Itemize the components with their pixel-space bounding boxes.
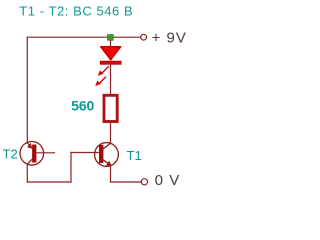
LED D1 cathode bar	[100, 61, 121, 64]
wire T1 emitter to bottom rail	[110, 166, 112, 183]
wire T1 base corner vertical	[70, 152, 72, 183]
LED light arrow 1	[98, 66, 109, 76]
svg-text:T2: T2	[3, 147, 18, 162]
wire bottom rail to 0V	[110, 181, 141, 183]
svg-text:T1: T1	[127, 148, 142, 163]
wire T1 base	[70, 152, 99, 154]
terminal 0V circle	[141, 179, 147, 185]
transistor T2 circle	[20, 142, 44, 166]
svg-text:0 V: 0 V	[155, 172, 181, 189]
svg-text:560: 560	[71, 97, 94, 113]
transistor T2 bottom lead	[27, 159, 32, 164]
LED light arrow 2	[95, 77, 106, 86]
transistor T1 base bar	[99, 145, 103, 163]
svg-text:T1 - T2: BC 546 B: T1 - T2: BC 546 B	[19, 4, 133, 19]
wire left rail (top rail to T2 collector)	[26, 37, 28, 143]
wire T2 base stub (open contact)	[37, 152, 56, 154]
resistor 560 body	[104, 95, 117, 121]
wire top rail +9V	[27, 36, 141, 38]
wire bottom left (to T2 emitter path)	[27, 181, 72, 183]
transistor T2 top lead with arrow into bar	[27, 143, 33, 149]
transistor T1 circle	[95, 143, 119, 167]
wire resistor to T1 collector	[110, 122, 112, 143]
wire node to LED anode	[110, 40, 112, 48]
LED D1 triangle (anode)	[101, 47, 121, 60]
node junction LED/top rail (green square)	[108, 35, 114, 41]
wire LED cathode to resistor	[110, 64, 112, 95]
wire T2 bottom lead vertical	[26, 164, 28, 182]
transistor T1 emitter lead with NPN arrow	[102, 159, 112, 166]
svg-text:+ 9V: + 9V	[152, 30, 187, 47]
terminal +9V circle	[141, 34, 147, 40]
transistor T1 collector lead	[102, 143, 111, 150]
transistor T2 base bar	[32, 145, 36, 163]
